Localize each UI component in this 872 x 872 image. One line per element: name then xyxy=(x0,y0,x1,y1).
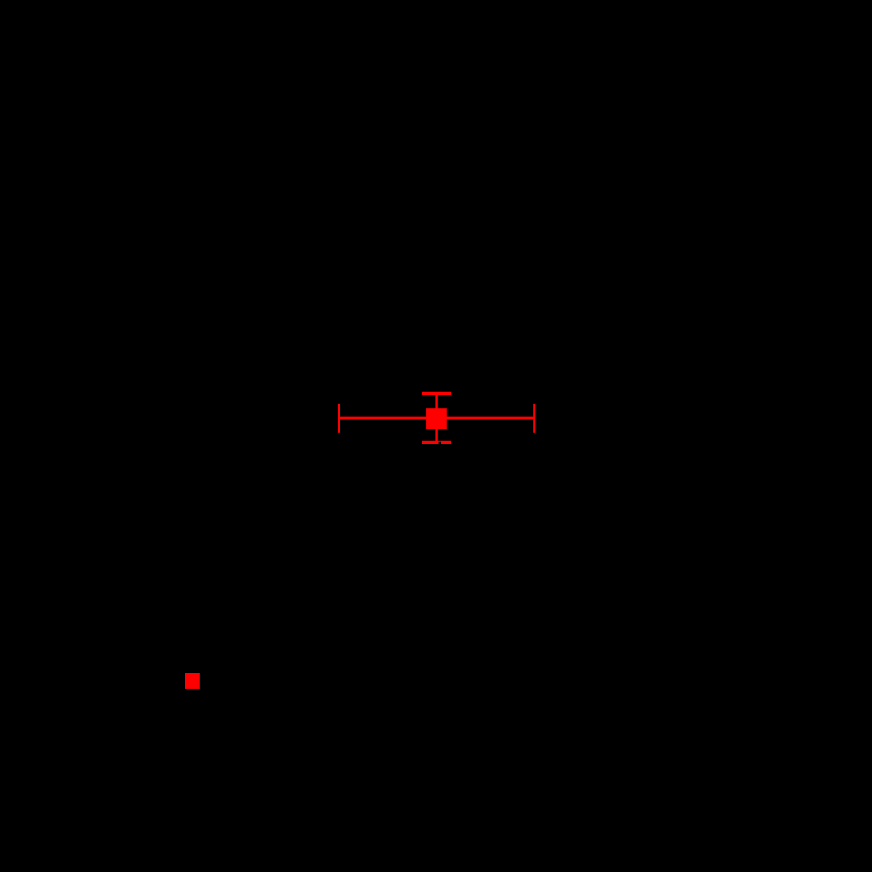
top error cap xyxy=(422,392,451,395)
horizontal error bar line xyxy=(338,417,535,420)
vertical error bar line xyxy=(435,393,437,442)
lower-left data point (filled square marker) xyxy=(185,673,200,689)
bottom error cap xyxy=(422,441,451,444)
left error cap xyxy=(338,404,340,433)
notch artifact on bottom cap xyxy=(439,442,441,445)
center data point (filled square marker) xyxy=(426,408,447,429)
right error cap xyxy=(533,404,535,433)
